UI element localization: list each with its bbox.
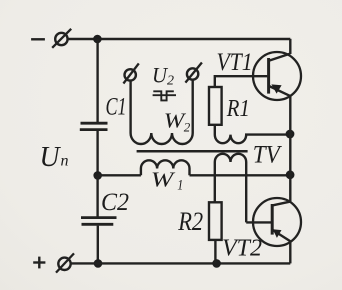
svg-text:1: 1	[177, 178, 183, 194]
label minus polarity	[31, 38, 45, 40]
svg-text:R2: R2	[177, 207, 203, 236]
winding VT2 base feedback	[215, 154, 246, 223]
wire VT2 base	[246, 221, 271, 223]
wire middle rail left segment	[98, 174, 141, 176]
svg-text:TV: TV	[253, 142, 283, 169]
wire C2 top lead	[96, 175, 98, 216]
transistor VT1	[253, 52, 301, 100]
wire left bus upper (to C1)	[96, 39, 98, 122]
label Un supply voltage	[40, 142, 69, 173]
svg-text:C2: C2	[101, 189, 129, 216]
svg-text:2: 2	[167, 74, 174, 89]
capacitor C1	[80, 123, 108, 129]
junction node top-left	[93, 35, 102, 44]
terminal U2 left output	[123, 63, 138, 83]
svg-text:VT1: VT1	[217, 49, 253, 76]
junction node middle-right	[286, 170, 295, 179]
junction node bottom-left	[94, 259, 103, 268]
wire right bus between emitter node and middle node	[289, 134, 291, 175]
terminal U2 right output	[185, 63, 202, 83]
wire top rail	[68, 38, 291, 40]
wire C2 to bottom rail	[97, 226, 99, 264]
svg-text:C1: C1	[106, 93, 127, 120]
terminal minus input	[52, 29, 71, 48]
junction node R2-bottom	[212, 259, 221, 268]
label plus polarity	[33, 257, 45, 269]
svg-text:п: п	[61, 153, 69, 170]
wire R2 to bottom rail	[214, 240, 216, 264]
winding VT1 base feedback	[215, 125, 290, 143]
junction node middle-left	[93, 171, 102, 180]
junction node VT1 emitter	[286, 130, 295, 139]
wire VT1 collector to top rail	[289, 39, 291, 54]
svg-text:R1: R1	[226, 96, 250, 122]
transistor VT2	[253, 198, 301, 246]
resistor R1	[209, 87, 222, 125]
wire middle rail right segment	[190, 174, 291, 176]
terminal plus input	[56, 253, 74, 272]
wire bottom rail	[71, 262, 290, 264]
symbol square-wave output	[153, 91, 176, 100]
label U2 output voltage	[152, 63, 174, 89]
wire VT2 emitter to bottom rail	[289, 241, 291, 263]
wire VT2 collector to middle node	[289, 175, 291, 202]
svg-text:2: 2	[184, 119, 191, 134]
label W2	[164, 109, 191, 135]
svg-text:U: U	[40, 142, 62, 173]
wire R1 to VT1 base	[215, 76, 268, 87]
label W1	[151, 167, 184, 193]
svg-text:W: W	[151, 167, 176, 191]
resistor R2	[209, 202, 222, 240]
wire VT1 emitter to node	[289, 96, 291, 134]
core TV transformer	[137, 150, 248, 153]
svg-text:VT2: VT2	[222, 235, 262, 261]
winding W1 primary	[141, 160, 190, 175]
capacitor C2	[81, 218, 117, 225]
winding W2 secondary	[131, 80, 193, 144]
wire C1 to middle node	[96, 131, 98, 176]
